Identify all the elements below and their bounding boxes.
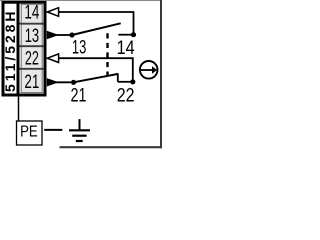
ground bar 2 [72,135,86,137]
svg-text:21: 21 [24,72,39,93]
node 13 junction dot [69,32,74,37]
actuation direction symbol circle [140,61,158,79]
svg-text:21: 21 [71,84,87,106]
svg-text:14: 14 [24,3,39,24]
svg-text:PE: PE [20,124,38,141]
NO contact 13-14 fixed contact [118,34,133,36]
wire 14 [59,12,134,35]
connector arrow terminal 13 (filled) [47,31,59,39]
connector arrow terminal 14 (open) [47,8,58,17]
connector arrow terminal 21 (filled) [47,78,59,86]
ground bar 3 [76,140,83,142]
node 14 junction dot [131,32,136,37]
svg-text:13: 13 [25,26,39,47]
terminal cell 14 [21,4,42,23]
divider between label box and terminal cells [17,2,20,96]
svg-text:22: 22 [25,48,39,69]
mechanical link (dashed) [106,33,108,75]
ground bar 1 [69,129,90,131]
PE box [17,121,43,145]
ground stem [79,119,81,130]
terminal cell 22 [21,46,42,69]
terminal cell divider 1 [20,23,44,25]
switch body block (label box + terminal strip) [3,2,45,95]
terminal cell divider 3 [20,68,44,70]
wire 21 [56,81,74,83]
NC contact 21-22 blade [74,74,119,82]
terminal cell 21 [21,69,42,93]
terminal cell 13 [21,24,42,47]
terminal cell divider 2 [20,45,44,47]
wire stub from PE box [44,129,62,131]
wire block to PE box [18,95,20,122]
svg-text:14: 14 [117,37,135,59]
svg-text:22: 22 [117,84,135,106]
node 21 junction dot [71,80,76,85]
node 22 junction dot [130,79,135,84]
connector arrow terminal 22 (open) [47,54,58,63]
NC contact 21-22 stop bar [117,73,119,82]
svg-text:13: 13 [72,37,86,59]
actuation direction symbol arrow [141,69,153,71]
NO contact 13-14 blade [72,23,121,35]
wire 13 [56,34,72,36]
NC contact 21-22 fixed contact [118,81,133,83]
wire 22 [59,58,133,82]
